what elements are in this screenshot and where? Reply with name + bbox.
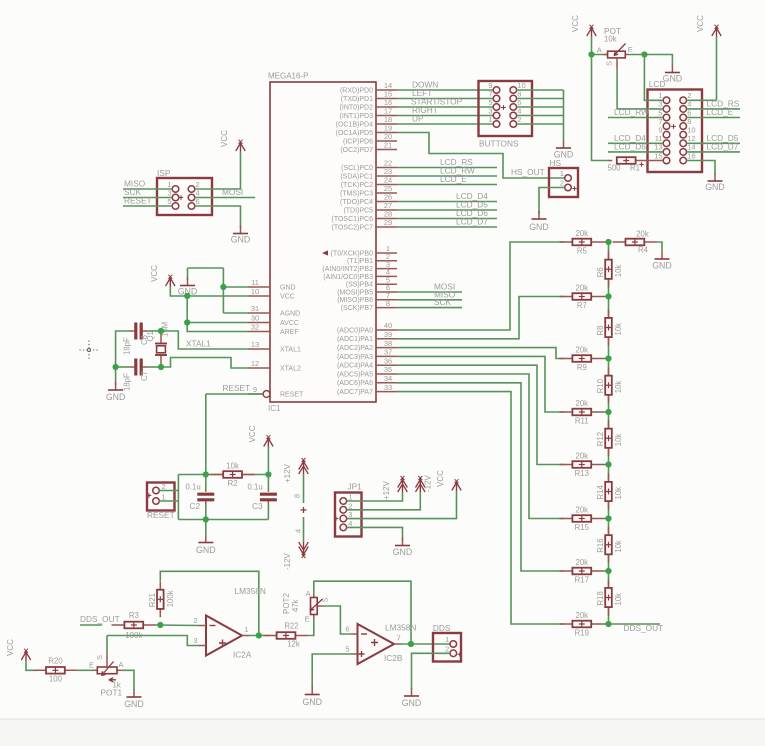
wire LCD_E net stub right (687, 117, 741, 119)
wire DOWN net (397, 89, 493, 91)
svg-text:10k: 10k (614, 540, 623, 553)
svg-text:18pF: 18pF (122, 373, 131, 391)
svg-text:20k: 20k (576, 284, 589, 293)
wire LCD_RW net stub (397, 175, 497, 177)
supply VCC (JP1) (436, 470, 461, 491)
svg-text:7: 7 (397, 634, 401, 643)
svg-text:8: 8 (386, 299, 390, 308)
wire ISP pin6 to ground (195, 206, 241, 228)
wire IC2P pin4 (303, 517, 305, 542)
svg-text:XTAL1: XTAL1 (186, 338, 211, 348)
svg-text:S: S (321, 597, 330, 602)
wire LCD_D7 net stub right (687, 151, 741, 153)
svg-text:VCC: VCC (696, 15, 705, 32)
svg-text:LCD_D7: LCD_D7 (707, 142, 739, 152)
resistor R4 20k (613, 229, 658, 254)
svg-text:18pF: 18pF (122, 337, 131, 355)
svg-text:(T1)PB1: (T1)PB1 (347, 258, 373, 265)
connector HS (549, 158, 578, 197)
wire LEFT net (397, 98, 493, 100)
svg-text:R16: R16 (596, 538, 605, 552)
svg-text:(T0/XCK)PB0: (T0/XCK)PB0 (331, 250, 374, 257)
svg-text:(TOSC2)PC7: (TOSC2)PC7 (332, 224, 374, 231)
svg-text:R5: R5 (577, 247, 588, 256)
svg-text:(ADC0)PA0: (ADC0)PA0 (337, 327, 373, 334)
svg-text:IC1: IC1 (268, 404, 281, 413)
junction VCC/R2/C3 (265, 471, 271, 477)
IC1 PB0 clock-arrow marker (322, 250, 328, 255)
ground (DDS) (402, 688, 422, 708)
junction ladder node 6 (605, 568, 611, 574)
svg-text:6: 6 (345, 625, 349, 634)
resistor R21 100k (vertical) (148, 581, 175, 617)
wire ISP SCK net (123, 197, 172, 199)
svg-text:20k: 20k (576, 558, 589, 567)
svg-text:5: 5 (345, 645, 349, 654)
svg-text:LCD_D6: LCD_D6 (614, 141, 646, 151)
ground (buttons) (554, 140, 574, 160)
junction AVCC (184, 319, 190, 325)
svg-text:+12V: +12V (382, 480, 391, 500)
microcontroller IC1 MEGA16-P body (268, 72, 376, 414)
wire feedback loop IC2A (160, 571, 258, 635)
svg-text:(TMS)PC3: (TMS)PC3 (340, 190, 373, 197)
svg-text:A: A (119, 660, 124, 669)
svg-text:(TDO)PC4: (TDO)PC4 (340, 199, 373, 206)
svg-text:R2: R2 (228, 479, 238, 488)
op-amp IC2A LM358N (193, 586, 266, 660)
svg-text:GND: GND (529, 222, 549, 232)
svg-text:(AIN1/OC0)PB3: (AIN1/OC0)PB3 (323, 274, 373, 281)
svg-text:(SDA)PC1: (SDA)PC1 (340, 173, 373, 180)
svg-text:20k: 20k (576, 506, 589, 515)
wire LCD_D7 net stub (397, 226, 497, 228)
junction ladder node 5 (605, 515, 611, 521)
wire POT1 A to ground (122, 670, 134, 690)
junction C2 gnd (203, 516, 209, 522)
ground (LCD pin16) (705, 173, 725, 192)
svg-text:33: 33 (384, 383, 392, 392)
svg-text:10k: 10k (614, 381, 623, 394)
svg-text:R9: R9 (577, 363, 587, 372)
svg-text:(ADC5)PA5: (ADC5)PA5 (337, 371, 373, 378)
resistor R18 10k (596, 580, 623, 616)
supply VCC (R20) (6, 639, 31, 661)
svg-text:R13: R13 (575, 469, 589, 478)
svg-text:GND: GND (393, 547, 413, 557)
junction ladder node 0 (605, 239, 611, 245)
wire LCD_D5 net stub right (687, 142, 741, 144)
svg-text:1: 1 (348, 493, 352, 502)
svg-text:UP: UP (412, 113, 424, 123)
wire POT1 wiper up (106, 636, 108, 654)
svg-text:20k: 20k (576, 611, 589, 620)
wire VCC to LCD pin2 (716, 37, 718, 101)
svg-text:HS: HS (550, 158, 562, 168)
wire XTAL1 net (161, 331, 248, 349)
svg-text:POT1: POT1 (101, 688, 123, 698)
svg-text:GND: GND (124, 699, 144, 709)
wire PA3 to ladder row 3 (397, 356, 564, 412)
svg-text:HS_OUT: HS_OUT (511, 167, 545, 177)
svg-text:R12: R12 (596, 432, 605, 446)
svg-text:(INT1)PD3: (INT1)PD3 (340, 113, 374, 120)
wire POT1 wiper to IC2A in+ (107, 636, 199, 646)
wire XTAL2 net (161, 358, 248, 369)
svg-text:RESET: RESET (223, 383, 251, 393)
svg-text:36: 36 (384, 356, 392, 365)
svg-text:32: 32 (251, 323, 259, 332)
svg-text:GND: GND (196, 545, 216, 555)
svg-text:12k: 12k (287, 640, 300, 649)
wire LCD_D6 net stub (608, 151, 663, 153)
resistor R7 20k (560, 284, 609, 310)
svg-text:2: 2 (348, 501, 352, 510)
svg-text:4: 4 (348, 519, 352, 528)
wire JP1 pin4 to ground (347, 527, 403, 540)
svg-text:(MISO)PB6: (MISO)PB6 (337, 297, 373, 304)
wire ladder spine (608, 242, 610, 624)
wire ISP RESET net (123, 205, 172, 207)
power -12V (JP1) (416, 474, 433, 492)
wire caps to ground rail (116, 331, 130, 385)
power IC2P +12V (283, 458, 308, 483)
svg-text:21: 21 (384, 141, 392, 150)
svg-text:RESET: RESET (147, 510, 175, 520)
svg-text:GND: GND (705, 182, 725, 192)
resistor R9 20k (560, 346, 609, 372)
svg-text:R1: R1 (630, 164, 640, 173)
resistor R14 10k (596, 474, 623, 510)
op-amp IC2B LM358N (345, 623, 416, 665)
wire RESET node to VCC node (206, 474, 269, 476)
svg-text:(SCK)PB7: (SCK)PB7 (341, 305, 373, 312)
svg-text:(AIN0/INT2)PB2: (AIN0/INT2)PB2 (322, 266, 373, 273)
svg-text:3: 3 (348, 510, 352, 519)
svg-text:S: S (95, 655, 104, 660)
junction RESET/C2/R2 (203, 471, 209, 477)
svg-text:-12V: -12V (424, 474, 433, 492)
svg-text:20k: 20k (576, 399, 589, 408)
junction VCC/AVCC riser (184, 293, 190, 299)
svg-text:A: A (305, 589, 310, 598)
wire IC2A out to R22 (250, 635, 271, 637)
ground (crystal) (106, 382, 126, 402)
wire R22 to POT2 E (308, 618, 314, 636)
wire pin11 GND (223, 286, 248, 288)
svg-text:20k: 20k (636, 229, 649, 238)
resistor R3 100k (112, 611, 157, 640)
svg-text:10k: 10k (614, 323, 623, 336)
wire PA5 to ladder row 5 (397, 374, 564, 519)
wire PA1 to ladder row 1 (397, 297, 564, 339)
wire LCD_E net stub (397, 184, 497, 186)
svg-text:3: 3 (193, 636, 197, 645)
ground (HS) (529, 211, 549, 232)
connector RESET (147, 482, 175, 520)
svg-text:LCD: LCD (649, 79, 666, 89)
wire C6 right (148, 330, 162, 332)
capacitor C3 0.1u (248, 475, 277, 520)
capacitor C2 0.1u (186, 475, 215, 520)
svg-text:RESET: RESET (280, 391, 304, 398)
connector JP1 (334, 482, 362, 537)
supply VCC (LCD pin2) (696, 15, 721, 37)
junction GND net (220, 284, 226, 290)
svg-text:(MOSI)PB5: (MOSI)PB5 (337, 289, 373, 296)
svg-text:VCC: VCC (571, 15, 580, 32)
svg-text:1: 1 (162, 493, 166, 502)
wire PA0 to ladder row 0 (397, 242, 564, 330)
svg-text:2: 2 (193, 616, 197, 625)
svg-text:R22: R22 (284, 622, 298, 631)
svg-text:C7: C7 (140, 371, 149, 381)
potentiometer POT1 1k (89, 654, 124, 698)
potentiometer POT 10k (597, 26, 633, 70)
svg-text:13: 13 (251, 340, 259, 349)
ground (pot E) (663, 65, 683, 84)
wire RESET pin2 (159, 490, 178, 492)
connector DDS (433, 623, 462, 662)
wire JP1 pin2 to -12V (347, 492, 421, 510)
wire HS_OUT net (397, 133, 565, 179)
svg-text:DDS_OUT: DDS_OUT (80, 614, 120, 624)
wire C7 left (116, 366, 130, 368)
wire RESET pin1 (159, 500, 178, 502)
svg-text:R17: R17 (575, 576, 589, 585)
wire IC2B out to DDS (401, 643, 450, 645)
svg-text:VCC: VCC (436, 470, 445, 487)
svg-text:10k: 10k (614, 487, 623, 500)
svg-text:VCC: VCC (6, 639, 15, 656)
wire pin31 AGND (223, 312, 248, 314)
svg-text:(OC1A)PD5: (OC1A)PD5 (336, 130, 373, 137)
svg-text:LM358N: LM358N (235, 586, 266, 596)
wire (517, 123, 564, 125)
ground (IC2B) (302, 687, 322, 708)
svg-text:(ADC4)PA4: (ADC4)PA4 (337, 363, 373, 370)
capacitor C7 18pF (122, 359, 149, 392)
wire DDS_OUT net (80, 624, 102, 626)
svg-text:10k: 10k (614, 265, 623, 278)
wire R4 to ground (657, 242, 662, 251)
svg-text:(TCK)PC2: (TCK)PC2 (341, 182, 373, 189)
svg-text:39: 39 (384, 330, 392, 339)
resistor R20 100 (33, 657, 78, 684)
wire GND bus drop (563, 90, 565, 140)
svg-text:LM358N: LM358N (385, 623, 416, 633)
wire PA2 to ladder row 2 (397, 348, 564, 359)
svg-text:1: 1 (488, 115, 492, 124)
wire LCD_D5 net stub (397, 209, 497, 211)
svg-text:GND: GND (302, 697, 322, 707)
wire VCC to R1 (592, 55, 608, 161)
ground (POT1) (124, 689, 144, 709)
resistor R15 20k (560, 506, 609, 532)
svg-text:VCC: VCC (248, 425, 257, 442)
svg-text:500: 500 (608, 164, 622, 173)
svg-text:4: 4 (294, 529, 303, 533)
svg-text:LCD_RW: LCD_RW (614, 107, 649, 117)
svg-text:S: S (605, 61, 614, 66)
svg-text:100k: 100k (166, 590, 175, 607)
svg-text:C2: C2 (190, 501, 201, 511)
wire HS pin2 to ground (539, 188, 565, 215)
svg-text:10k: 10k (614, 593, 623, 606)
svg-text:E: E (89, 661, 94, 670)
connector BUTTONS (479, 81, 533, 149)
svg-text:38: 38 (384, 339, 392, 348)
wire VCC to R20 (26, 661, 38, 671)
junction VCC/pot A (588, 51, 594, 57)
wire GND riser (222, 268, 224, 313)
wire C7 right (148, 366, 162, 368)
svg-text:20k: 20k (576, 229, 589, 238)
svg-text:11: 11 (251, 278, 259, 287)
wire PA4 to ladder row 4 (397, 365, 564, 464)
svg-text:GND: GND (663, 74, 683, 84)
wire reset node left (178, 474, 205, 476)
svg-text:(ADC7)PA7: (ADC7)PA7 (337, 389, 373, 396)
svg-text:1: 1 (245, 625, 249, 634)
svg-text:(INT0)PD2: (INT0)PD2 (340, 104, 374, 111)
resistor R1 500 (608, 157, 664, 172)
svg-text:29: 29 (384, 218, 392, 227)
supply VCC (LCD pot) (571, 15, 596, 37)
potentiometer POT2 47k (vertical) (282, 589, 330, 624)
svg-text:RESET: RESET (124, 195, 152, 205)
wire reset left riser (177, 475, 179, 520)
wire DDS_OUT stub (609, 623, 661, 625)
wire GND loop top (188, 267, 224, 269)
supply VCC (MCU) (150, 265, 175, 287)
wire START/STOP net (397, 106, 493, 108)
junction ladder node 7 (605, 621, 611, 627)
canvas bottom margin band (0, 719, 765, 746)
svg-text:2: 2 (445, 644, 449, 653)
wire LCD_D6 net stub (397, 218, 497, 220)
svg-text:31: 31 (251, 304, 259, 313)
svg-text:GND: GND (280, 284, 296, 291)
svg-text:A: A (597, 46, 602, 55)
wire LCD_RS net stub (397, 167, 497, 169)
junction IC2A output (256, 632, 262, 638)
resistor R8 10k (596, 310, 623, 346)
ground (C2/C3) (196, 535, 216, 556)
supply VCC (ISP) (220, 130, 245, 152)
svg-text:(ADC2)PA2: (ADC2)PA2 (337, 345, 373, 352)
svg-text:R15: R15 (575, 523, 590, 532)
resistor R19 20k (560, 611, 609, 637)
svg-text:8: 8 (293, 494, 302, 498)
svg-text:2: 2 (162, 482, 166, 491)
svg-text:AGND: AGND (280, 310, 300, 317)
wire AVCC (187, 322, 248, 324)
svg-text:30: 30 (251, 314, 259, 323)
svg-text:(TXD)PD1: (TXD)PD1 (341, 96, 373, 103)
wire VCC to ISP pin2 (195, 152, 241, 190)
svg-text:(ADC1)PA1: (ADC1)PA1 (337, 336, 373, 343)
svg-text:-12V: -12V (283, 552, 292, 570)
svg-text:(ICP)PD6: (ICP)PD6 (343, 138, 373, 145)
svg-text:R21: R21 (148, 593, 157, 607)
svg-text:JP1: JP1 (348, 482, 363, 492)
svg-text:LCD_E: LCD_E (707, 107, 734, 117)
IC1 RESET inversion bubble pin 9 (263, 391, 270, 398)
svg-text:34: 34 (384, 374, 392, 383)
wire UP net (397, 123, 493, 125)
svg-text:0.1u: 0.1u (186, 483, 201, 492)
resistor R5 20k (560, 229, 609, 255)
svg-text:(ADC6)PA6: (ADC6)PA6 (337, 380, 373, 387)
svg-text:(ADC3)PA3: (ADC3)PA3 (337, 354, 373, 361)
ground (R4) (652, 251, 672, 271)
svg-text:(OC2)PD7: (OC2)PD7 (340, 147, 373, 154)
svg-text:9: 9 (253, 385, 257, 394)
resistor R12 10k (596, 420, 623, 456)
wire VCC to POT A (592, 37, 608, 55)
svg-text:20k: 20k (576, 452, 589, 461)
wire IC2B in+ to ground (312, 654, 351, 688)
svg-text:IC2B: IC2B (384, 653, 403, 663)
ground (ISP) (231, 226, 251, 245)
svg-text:R11: R11 (575, 417, 589, 426)
wire (517, 106, 564, 108)
wire LCD pin3 to pot wiper (617, 70, 663, 109)
svg-text:R8: R8 (596, 326, 605, 336)
junction IC2B output (408, 641, 414, 647)
wire VCC to pin10 (170, 287, 248, 297)
wire LCD_D4 net stub (397, 201, 497, 203)
svg-text:E: E (628, 45, 633, 54)
wire LCD_D4 net stub (608, 142, 663, 144)
wire (517, 115, 564, 117)
svg-text:20k: 20k (576, 346, 589, 355)
wire IC2P pin8 (303, 474, 305, 503)
sheet origin crosshair (80, 341, 100, 360)
junction pot E / LCD pin1 (641, 51, 647, 57)
junction ladder node 3 (605, 409, 611, 415)
capacitor C6 18pF (122, 323, 149, 356)
power IC2P -12V (283, 542, 308, 570)
svg-text:1: 1 (445, 635, 449, 644)
power +12V (JP1) (382, 476, 407, 500)
svg-text:10: 10 (251, 287, 259, 296)
wire RESET net (206, 393, 263, 395)
svg-text:R3: R3 (129, 611, 139, 620)
wire pot E to GND (630, 55, 673, 65)
svg-text:R4: R4 (638, 246, 649, 255)
wire DDS pin2 to ground (412, 653, 451, 689)
wire GND loop drop (187, 268, 189, 280)
wire LCD pin16 to ground (687, 161, 716, 175)
svg-text:40: 40 (384, 321, 392, 330)
svg-text:(TDI)PC5: (TDI)PC5 (343, 207, 373, 214)
wire MOSI net stub (195, 197, 255, 199)
wire LCD_RW net stub (608, 117, 663, 119)
junction XTAL2 node (158, 364, 164, 370)
resistor R10 10k (596, 367, 623, 403)
svg-text:MOSI: MOSI (222, 187, 243, 197)
wire LCD_RS net stub right (687, 108, 741, 110)
svg-text:R7: R7 (577, 301, 587, 310)
svg-text:(SS)PB4: (SS)PB4 (346, 282, 373, 289)
svg-text:AREF: AREF (280, 329, 299, 336)
svg-text:GND: GND (106, 392, 126, 402)
IC1 left-side pins with numbers and names (248, 278, 304, 398)
wire (517, 98, 564, 100)
svg-text:12: 12 (251, 359, 259, 368)
